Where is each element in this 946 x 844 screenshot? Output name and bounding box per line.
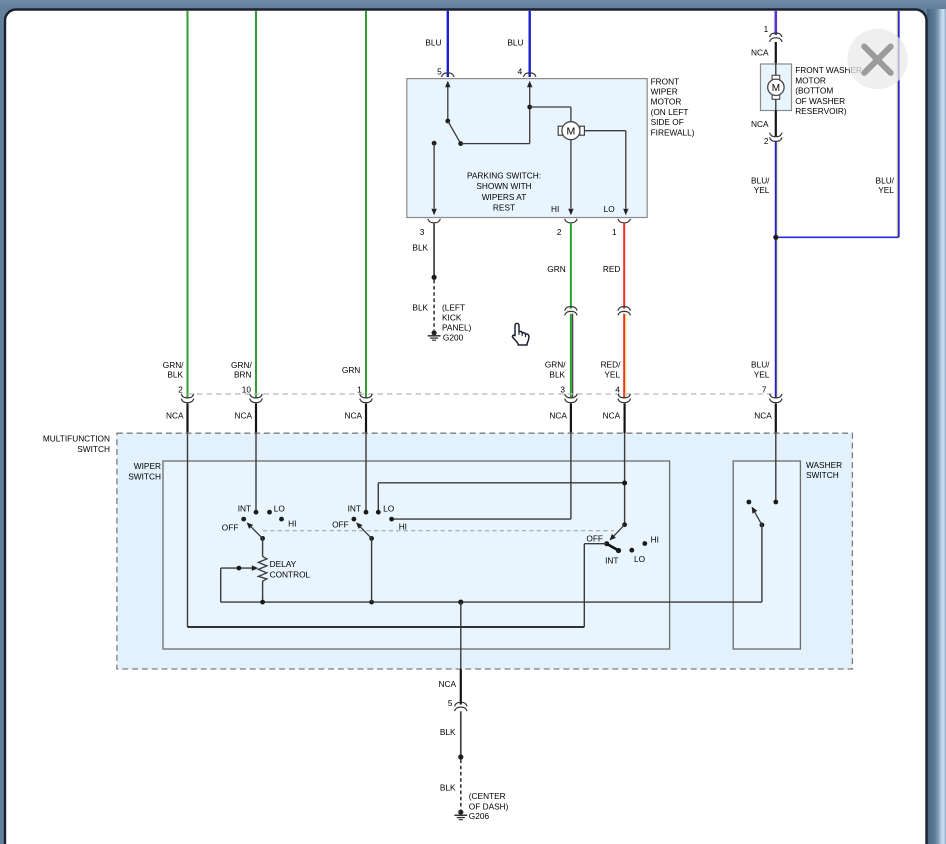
svg-text:PARKING SWITCH:: PARKING SWITCH: (467, 171, 541, 181)
svg-text:1: 1 (357, 384, 362, 394)
svg-text:3: 3 (560, 385, 565, 395)
svg-text:5: 5 (437, 67, 442, 77)
svg-text:5: 5 (448, 698, 453, 708)
svg-text:M: M (772, 83, 780, 94)
svg-text:(ON LEFT: (ON LEFT (651, 107, 689, 117)
svg-text:OFF: OFF (222, 523, 239, 533)
svg-text:HI: HI (288, 518, 296, 528)
svg-text:SWITCH: SWITCH (806, 470, 839, 480)
svg-text:GRN/: GRN/ (545, 360, 566, 370)
svg-text:G200: G200 (443, 332, 464, 342)
svg-text:NCA: NCA (166, 411, 184, 421)
svg-text:2: 2 (557, 227, 562, 237)
svg-text:RED: RED (603, 264, 621, 274)
svg-text:1: 1 (764, 24, 769, 34)
svg-text:10: 10 (242, 384, 252, 394)
svg-text:HI: HI (551, 204, 559, 214)
svg-text:LO: LO (634, 554, 646, 564)
svg-text:BLK: BLK (440, 782, 456, 792)
svg-text:2: 2 (764, 136, 769, 146)
svg-text:LO: LO (604, 204, 616, 214)
svg-text:(CENTER: (CENTER (469, 791, 506, 801)
svg-text:7: 7 (762, 385, 767, 395)
svg-text:BLU: BLU (425, 38, 441, 48)
svg-text:RESERVOIR): RESERVOIR) (795, 106, 847, 116)
svg-text:GRN: GRN (547, 264, 565, 274)
svg-text:WIPER: WIPER (651, 87, 678, 97)
svg-text:HI: HI (399, 522, 407, 532)
svg-text:KICK: KICK (442, 312, 462, 322)
svg-text:SHOWN WITH: SHOWN WITH (476, 181, 531, 191)
svg-text:2: 2 (178, 384, 183, 394)
svg-text:NCA: NCA (603, 411, 621, 421)
svg-text:YEL: YEL (878, 185, 894, 195)
svg-text:RED/: RED/ (601, 360, 622, 370)
svg-text:BLK: BLK (549, 369, 565, 379)
svg-text:OFF: OFF (332, 520, 349, 530)
svg-text:BLU/: BLU/ (751, 360, 770, 370)
svg-text:FRONT: FRONT (651, 76, 680, 86)
svg-text:MULTIFUNCTION: MULTIFUNCTION (43, 434, 110, 444)
svg-text:WASHER: WASHER (806, 460, 842, 470)
svg-text:OF WASHER: OF WASHER (795, 96, 845, 106)
svg-text:BLK: BLK (412, 243, 428, 253)
svg-text:LO: LO (274, 504, 286, 514)
svg-text:NCA: NCA (438, 679, 456, 689)
svg-text:OFF: OFF (586, 533, 603, 543)
svg-text:MOTOR: MOTOR (795, 75, 826, 85)
svg-text:BLK: BLK (412, 303, 428, 313)
svg-text:FIREWALL): FIREWALL) (651, 127, 695, 137)
svg-text:SIDE OF: SIDE OF (651, 117, 684, 127)
svg-text:BLU: BLU (507, 38, 523, 48)
svg-text:SWITCH: SWITCH (77, 444, 110, 454)
svg-text:3: 3 (420, 227, 425, 237)
svg-text:YEL: YEL (604, 369, 620, 379)
svg-text:WIPER: WIPER (134, 461, 161, 471)
svg-text:GRN: GRN (342, 365, 360, 375)
svg-text:G206: G206 (469, 811, 490, 821)
svg-text:YEL: YEL (754, 369, 770, 379)
svg-text:NCA: NCA (751, 119, 769, 129)
svg-text:LO: LO (383, 504, 395, 514)
svg-text:DELAY: DELAY (270, 559, 297, 569)
svg-text:SWITCH: SWITCH (128, 472, 161, 482)
svg-text:M: M (567, 126, 576, 138)
svg-text:INT: INT (348, 504, 361, 514)
svg-text:INT: INT (238, 504, 251, 514)
svg-text:4: 4 (615, 385, 620, 395)
svg-text:OF DASH): OF DASH) (469, 802, 509, 812)
svg-text:4: 4 (518, 67, 523, 77)
svg-text:(BOTTOM: (BOTTOM (795, 86, 833, 96)
svg-text:REST: REST (493, 202, 515, 212)
svg-text:PANEL): PANEL) (442, 322, 472, 332)
svg-text:INT: INT (605, 555, 618, 565)
svg-text:NCA: NCA (549, 411, 567, 421)
svg-text:1: 1 (612, 227, 617, 237)
svg-text:NCA: NCA (754, 411, 772, 421)
svg-text:BLK: BLK (167, 369, 183, 379)
svg-text:CONTROL: CONTROL (270, 570, 311, 580)
svg-text:HI: HI (651, 535, 659, 545)
svg-text:(LEFT: (LEFT (442, 302, 465, 312)
svg-text:NCA: NCA (234, 411, 252, 421)
svg-text:NCA: NCA (344, 411, 362, 421)
svg-text:BLK: BLK (440, 727, 456, 737)
svg-text:NCA: NCA (751, 48, 769, 58)
svg-text:YEL: YEL (754, 185, 770, 195)
svg-text:WIPERS AT: WIPERS AT (482, 192, 527, 202)
svg-text:BRN: BRN (234, 369, 252, 379)
svg-text:MOTOR: MOTOR (651, 97, 682, 107)
